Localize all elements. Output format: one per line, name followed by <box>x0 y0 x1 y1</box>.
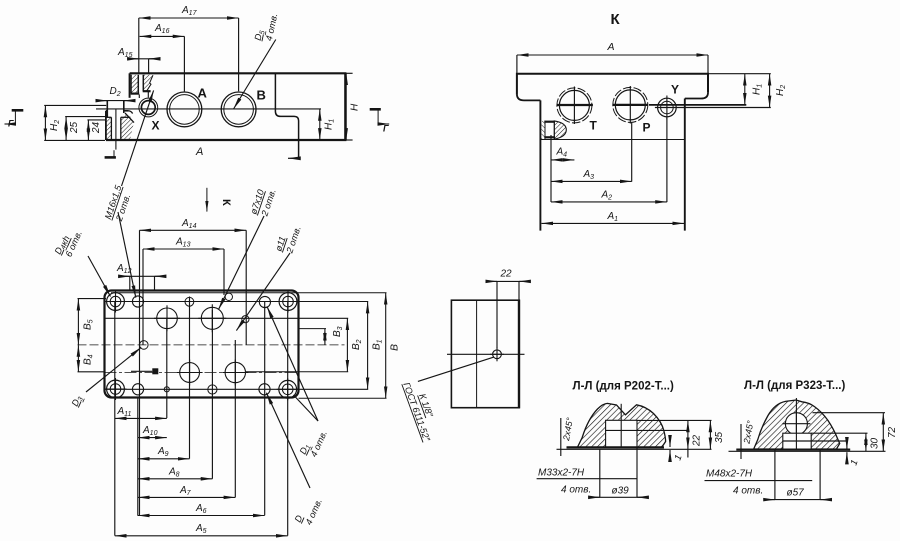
port circle B outer <box>221 92 256 127</box>
detail 1 centerline <box>620 404 622 447</box>
port Y outer <box>658 98 677 117</box>
svg-text:A: A <box>198 86 208 101</box>
svg-text:А: А <box>607 41 615 53</box>
plug square K 1/8 <box>152 368 158 374</box>
svg-text:24: 24 <box>91 121 102 134</box>
K-direction arrow <box>206 188 208 212</box>
svg-text:H: H <box>350 103 361 111</box>
dimension 35 (detail 1) <box>709 421 711 450</box>
svg-text:35: 35 <box>714 431 725 443</box>
detail 1 slot white <box>606 420 637 447</box>
bolt hole top-left outer <box>107 293 125 311</box>
svg-text:К: К <box>220 199 232 206</box>
dimension A14 <box>140 229 247 231</box>
dimension 22 (side view) <box>496 281 498 348</box>
dimension A3 <box>631 123 633 182</box>
dimension A7 <box>138 496 236 498</box>
svg-text:М48х2-7Н: М48х2-7Н <box>706 469 753 480</box>
dimension A (K view) <box>516 55 518 73</box>
X port thread crest bars <box>544 121 555 123</box>
view 3: plan view plate outline <box>105 291 299 398</box>
body left edge <box>539 100 541 230</box>
leader D3 <box>86 347 141 392</box>
dimension A8 <box>138 478 213 480</box>
dimension B4 <box>77 345 79 372</box>
small hole bottom 2 <box>208 385 217 394</box>
view 1: valve plate side section outline <box>106 73 345 140</box>
bolt hole top-right outer <box>279 293 297 311</box>
svg-text:Л-Л (для Р323-Т...): Л-Л (для Р323-Т...) <box>744 380 846 392</box>
dimension B <box>385 293 387 398</box>
svg-text:Р: Р <box>643 121 651 135</box>
section mark left <box>12 109 24 112</box>
svg-text:Т: Т <box>590 119 598 133</box>
svg-text:22: 22 <box>500 269 513 280</box>
port P outer <box>613 87 648 122</box>
body horizontal line <box>540 139 684 141</box>
detail 2 base thin line <box>729 450 886 452</box>
port hole plan T <box>225 362 245 382</box>
port P inner <box>615 90 645 120</box>
svg-text:B: B <box>257 88 266 103</box>
svg-text:ø39: ø39 <box>612 486 630 497</box>
middle dashed centerline <box>78 344 345 346</box>
extension verticals through plan <box>139 230 141 516</box>
vertical thread hole section: left hatched strip <box>131 75 138 93</box>
dimension A17 <box>138 18 140 73</box>
dimension A2 <box>666 117 668 202</box>
svg-text:4 отв.: 4 отв. <box>733 486 763 497</box>
dimension D2 <box>97 100 134 102</box>
detail 2 base line <box>736 449 850 451</box>
bottom hole row line <box>105 388 369 390</box>
lower dash-dot line <box>105 372 299 374</box>
counterbore chamfer <box>125 113 134 123</box>
dimension 1 (detail 2) <box>846 441 848 449</box>
svg-text:К: К <box>611 11 621 28</box>
port circle A inner <box>170 95 200 125</box>
small hole phi11 right <box>242 316 249 323</box>
dimension A5 <box>115 535 288 537</box>
plate left upper edge <box>129 73 131 98</box>
view 4: side view rectangle <box>451 300 519 408</box>
detail 2 slot white <box>783 433 811 450</box>
dimension A1 <box>542 222 685 224</box>
thread hole zigzag break edge <box>147 75 153 91</box>
svg-text:4 отв.: 4 отв. <box>561 485 591 496</box>
dimension A6 <box>138 515 265 517</box>
detail 1 thread line <box>606 429 690 431</box>
svg-text:Y: Y <box>671 83 679 97</box>
section hatch block right of bore <box>121 114 134 140</box>
detail 2 centerline <box>795 398 797 449</box>
svg-text:Г: Г <box>383 124 389 134</box>
port circle A outer <box>167 92 202 127</box>
side view centerline <box>447 353 525 355</box>
svg-text:Л-Л (для Р202-Т...): Л-Л (для Р202-Т...) <box>573 381 675 393</box>
svg-text:А: А <box>195 146 203 158</box>
dimension A4 <box>550 135 552 202</box>
svg-text:72: 72 <box>887 426 898 438</box>
stud hole D1 top-left <box>132 296 143 307</box>
view 2: K-view outline flange <box>517 74 708 95</box>
dimension H right <box>345 72 352 74</box>
side view right edge thick <box>518 300 520 409</box>
thread bore stubs <box>138 94 140 98</box>
dimension B3 <box>324 329 326 345</box>
leader D <box>266 393 310 488</box>
stud hole D1 bottom-right <box>259 384 270 395</box>
port P center bar <box>613 104 649 106</box>
port hole plan P <box>180 363 200 383</box>
body right edge <box>684 99 686 231</box>
detail 1 base thin line <box>557 448 712 450</box>
dimension 22 (detail 1) <box>637 419 712 421</box>
dimension H2 (K view) <box>655 107 771 109</box>
stud hole D1 top-right <box>259 296 270 307</box>
detail 1 dome section <box>578 403 666 447</box>
bolt hole bottom-right outer <box>279 380 297 398</box>
svg-text:ø57: ø57 <box>787 488 805 499</box>
leader M16x1,5 thread callout <box>122 90 154 186</box>
small hole phi7 top <box>185 297 194 306</box>
thread hole bottom bar right <box>143 90 151 92</box>
dimension A16 <box>183 36 185 91</box>
dimension 72 (detail 2) <box>813 412 886 414</box>
dimension phi57 <box>774 450 776 500</box>
port hole row line <box>105 317 349 319</box>
dimension A10 <box>137 398 139 438</box>
dimension A15 <box>148 59 150 73</box>
section hatch block left of bore <box>107 118 112 140</box>
flange left fillet <box>517 95 541 101</box>
port T inner <box>559 90 589 120</box>
dimension phi39 <box>599 449 601 497</box>
small hole bottom 1 <box>164 387 169 392</box>
leader D5 hole callout <box>234 40 276 110</box>
dimension H1 <box>319 109 321 140</box>
section cut stepped line <box>275 74 298 159</box>
leader M16 to plan stud hole <box>118 212 136 298</box>
dimension A13 <box>143 248 224 250</box>
detail 1 base line <box>567 446 665 448</box>
bolt hole bottom-left outer <box>107 380 125 398</box>
svg-text:25: 25 <box>69 121 80 134</box>
detail 2 thread line <box>783 440 847 442</box>
port T center bar <box>557 104 593 106</box>
hole X plan <box>140 341 149 350</box>
dimension B1 <box>367 302 369 389</box>
section mark bar below step <box>105 156 116 159</box>
port T outer <box>557 88 592 123</box>
counterbore wall left <box>106 101 108 117</box>
label 2x45 (detail 2) <box>740 424 742 459</box>
detail 2 pilot circle <box>785 413 807 435</box>
svg-text:X: X <box>152 119 160 133</box>
leader K 1/8 GOST 6111-52 <box>418 357 494 381</box>
dimension A11 <box>115 417 167 419</box>
left step top surface <box>106 110 108 112</box>
port Y inner <box>661 101 674 114</box>
dimension 30 (detail 2) <box>811 432 867 434</box>
svg-text:М33х2-7Н: М33х2-7Н <box>538 468 585 479</box>
leader phi7x10 <box>219 216 265 310</box>
port circle B inner <box>224 95 254 125</box>
label 2x45 (detail 1) <box>560 418 562 456</box>
port hole X inner <box>141 101 155 115</box>
dimension 25 <box>65 116 106 118</box>
X port hatched half-section <box>541 121 545 139</box>
svg-text:Г: Г <box>8 119 14 129</box>
hole shoulder line <box>106 116 112 118</box>
dimension H2 left <box>44 104 106 106</box>
small hole phi7 upper <box>225 293 232 300</box>
side view inner line <box>476 300 478 408</box>
port hole plan B <box>201 307 223 329</box>
left-side extensions <box>78 298 107 300</box>
ports centerline <box>96 108 321 110</box>
section mark right <box>370 108 381 111</box>
port hole X outer <box>139 98 158 117</box>
dimension 1 (detail 1) <box>669 437 671 447</box>
stud hole D1 bottom-left <box>132 384 143 395</box>
counterbore wall right <box>123 101 125 113</box>
detail 2 dome section <box>754 400 840 449</box>
thread hole bottom bar left <box>131 92 140 94</box>
svg-text:22: 22 <box>692 434 703 447</box>
dimension B5 <box>77 299 79 345</box>
leader D4 bolt callout <box>88 256 111 297</box>
right-side extensions <box>111 292 387 294</box>
leader phi11 <box>236 253 290 331</box>
flange right fillet <box>685 93 708 99</box>
svg-text:B: B <box>389 344 401 351</box>
dimension A9 <box>138 458 190 460</box>
bore wall left <box>110 117 112 139</box>
left step left wall <box>105 111 107 140</box>
dimension B2 <box>346 319 348 372</box>
side port hole <box>493 350 502 359</box>
vertical thread hole section: right hatched strip <box>143 75 153 91</box>
bore wall right <box>120 117 122 139</box>
leader D1 <box>267 307 318 422</box>
port hole plan A <box>157 308 178 329</box>
top row hole line <box>105 301 369 303</box>
dimension H1 (K view) <box>649 104 746 106</box>
left step corner chamfer <box>129 111 133 114</box>
dimension 24 <box>87 119 106 121</box>
dimension A12 <box>129 276 131 291</box>
bore axis centerline <box>115 109 117 150</box>
svg-text:30: 30 <box>870 437 881 449</box>
